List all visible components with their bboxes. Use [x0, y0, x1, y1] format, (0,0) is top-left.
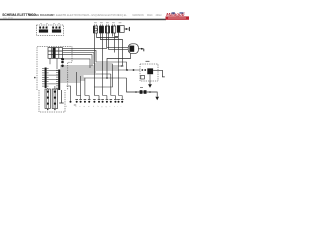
wire bundle line 2: [60, 67, 118, 69]
wire bridge pair6: [119, 96, 123, 100]
wire lamp4 lead b: [114, 33, 116, 53]
dashed box dashboard unit: [37, 25, 64, 36]
wire bundle line 1: [60, 65, 122, 67]
logo Malaguti: [166, 12, 190, 20]
svg-text:v: v: [114, 106, 115, 108]
wires between combs: [47, 71, 59, 84]
wire bridge pair2: [85, 96, 89, 100]
labels above dashboard box: [40, 23, 60, 25]
arrowhead: [155, 97, 159, 100]
connector grid J1: [48, 48, 63, 59]
CDI dashed box: [140, 64, 158, 81]
svg-text:SCH. ELECTR.: SCH. ELECTR.: [50, 14, 68, 17]
lower dashed box connector block: [39, 90, 65, 112]
CDI label: [146, 60, 150, 62]
wire grid run 4: [63, 55, 93, 66]
wire grid run 3: [63, 53, 95, 65]
ground in box: [59, 90, 63, 103]
run bead b: [144, 90, 147, 94]
wire lamp2 lead b: [102, 33, 104, 70]
wire bridge pair5: [111, 96, 116, 100]
wire upper link: [62, 59, 90, 68]
svg-text:n: n: [79, 106, 80, 108]
terminal row: [70, 99, 124, 102]
wire grid run 2: [63, 50, 127, 70]
wire bundle line 4: [60, 71, 96, 73]
minus tick: [74, 104, 76, 106]
indicator icon 2: [52, 26, 61, 33]
wire bundle line 3: [60, 69, 140, 71]
indicator icon 1: [39, 26, 48, 33]
wire comb A drop: [48, 86, 55, 89]
bundle dots: [126, 69, 128, 71]
big dashed box handlebar unit: [37, 47, 72, 91]
wire bridge pair4: [103, 70, 107, 99]
wire pair4 feed: [110, 74, 112, 96]
wire lamp2 lead a: [100, 33, 122, 66]
lamp L2: [99, 24, 103, 33]
strip feet: [47, 109, 48, 110]
bottom right run: [127, 78, 158, 97]
wire pair2 feed: [84, 78, 86, 96]
wire y87 link: [94, 64, 113, 87]
wire bundle line 6b: [60, 79, 85, 81]
labels above lamps: [94, 22, 121, 24]
tick label near x119: [121, 65, 124, 66]
run label: [140, 87, 143, 89]
svg-text:v: v: [109, 106, 110, 108]
wire lamp3 lead b to switch: [109, 33, 129, 49]
comb connector B: [56, 70, 60, 91]
arrowhead below CDI: [148, 84, 152, 88]
wire CDI drop: [149, 81, 151, 84]
wire bundle line 7: [60, 77, 126, 79]
wire bundle line 6: [60, 75, 83, 77]
header title left: [2, 13, 162, 19]
svg-text:MAD.: MAD.: [147, 14, 153, 17]
ignition switch S1: [128, 44, 144, 54]
wire grid drop 1: [49, 58, 51, 64]
lamp L1: [93, 24, 97, 33]
wire grid to switch: [63, 47, 108, 49]
svg-text:g: g: [101, 106, 102, 108]
svg-text:MADISON: MADISON: [133, 14, 144, 17]
wire pair1 feed b: [80, 76, 82, 96]
run dot a: [135, 91, 137, 93]
svg-text:400cc: 400cc: [156, 14, 163, 17]
wire lamp1 lead b: [97, 33, 119, 38]
connector plug P1: [117, 26, 129, 33]
wire pair1 feed a: [76, 72, 78, 96]
wire bundle line 5: [60, 73, 111, 75]
junction component: [61, 58, 64, 67]
svg-text:n: n: [75, 106, 76, 108]
wire bridge pair3: [94, 96, 99, 100]
wire grid drop 2: [56, 58, 58, 69]
run bead a: [140, 90, 143, 94]
label dot left of box: [34, 77, 36, 79]
wire switch bottom lead: [107, 54, 131, 79]
lamp L3: [105, 24, 109, 33]
wire pair5 feed: [118, 38, 120, 96]
wire bundle line 6c: [60, 81, 80, 83]
svg-text:ESQ.EL.: ESQ.EL.: [118, 14, 128, 17]
header rule: [0, 19, 166, 21]
CDI exit wire: [158, 70, 165, 77]
wire lamp3 lead a to switch: [106, 33, 128, 47]
tiny terminal labels: [66, 106, 122, 108]
wire lamp4 lead a: [111, 33, 113, 37]
comb connector A: [42, 68, 49, 89]
wire bridge pair1: [77, 96, 81, 100]
svg-text:k: k: [66, 106, 67, 108]
lower connector block cells: [45, 89, 58, 108]
wire box L to terminal 1: [67, 86, 71, 101]
run dot b: [149, 91, 151, 93]
CDI contents: [141, 68, 158, 81]
svg-text:g: g: [106, 106, 107, 108]
wire plug drop: [115, 32, 119, 36]
junction dot bundle: [106, 77, 108, 79]
svg-text:ELEKTROSCHEMA - ESQUEMA ELECTR: ELEKTROSCHEMA - ESQUEMA ELECTRICO: [67, 14, 119, 17]
lamp L4: [111, 24, 115, 33]
wire lamp1 lead a: [93, 33, 95, 96]
